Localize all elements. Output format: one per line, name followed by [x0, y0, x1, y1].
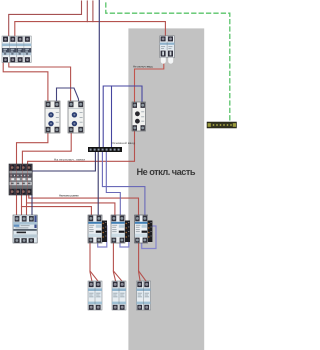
aux contact block of E	[148, 221, 153, 243]
wire contactor H out to switch QS (non-switched line)	[28, 131, 135, 165]
wire N busbar to contactor E	[102, 152, 144, 216]
breaker F3 (2-pole output)	[137, 281, 151, 310]
wire N busbar to switch QS	[33, 152, 96, 172]
wire N busbar to contactor D	[106, 152, 120, 216]
svg-text:На неоткл. розетки: На неоткл. розетки	[59, 194, 79, 198]
wire aux loop contactor E	[142, 226, 156, 249]
contactor E with aux block	[135, 215, 153, 243]
wire runs crossing switch QS face	[11, 164, 28, 195]
svg-text:На неотключ. линии: На неотключ. линии	[54, 158, 85, 162]
wire aux loop contactor C	[98, 226, 107, 247]
wire Q1 pole2 out to contactor A	[3, 61, 48, 102]
wire contactor D out to breaker F2	[113, 243, 115, 282]
wire switch QS out 1 to breaker I	[16, 195, 18, 216]
aux contact block of D	[125, 221, 130, 243]
contactor B	[68, 101, 84, 133]
contactor H	[132, 102, 146, 131]
wire Q1 pole1 out to contactor B	[9, 61, 71, 102]
aux contact block of C	[102, 221, 107, 243]
wire contactor E out diagonal to breaker F3 pole2	[139, 271, 147, 282]
svg-text:Основной ввод: Основной ввод	[112, 141, 136, 145]
wire contactor D out diagonal to breaker F2 pole2	[113, 271, 122, 282]
TEXT LABELS	[54, 64, 196, 197]
wire contactor E out to breaker F3	[139, 243, 141, 282]
N busbar (main input terminal strip)	[88, 147, 122, 152]
breaker F2 (2-pole output)	[112, 281, 126, 310]
wire N jumper contactor A to contactor B	[57, 88, 79, 102]
PE busbar (ground bar, right side)	[207, 122, 237, 128]
wire aux loop contactor D	[120, 226, 129, 247]
wire branch to contactor C	[22, 207, 92, 216]
wire riser to top edge at x93	[92, 1, 94, 22]
wire riser to top edge at x87	[86, 1, 88, 22]
svg-text:Не отключ. ввод: Не отключ. ввод	[133, 64, 153, 68]
wire contactor B out to switch QS	[22, 133, 71, 165]
wire switch QS out 2 to breaker I	[21, 195, 23, 216]
wire contactor C out diagonal to breaker F1 pole2	[90, 271, 98, 282]
switch QS (4-pole modular switch)	[9, 164, 32, 195]
breaker F1 (2-pole output)	[88, 281, 102, 310]
wire N busbar leg at x111	[111, 86, 113, 148]
contactor A	[45, 101, 60, 133]
contactor C with aux block	[88, 215, 107, 243]
wire N switch QS to breaker I	[31, 195, 33, 216]
wire N from contactor H to N busbar	[103, 86, 142, 148]
breaker G (2-pole, non-switched input)	[160, 36, 175, 64]
breaker I (3-pole output breaker, bottom-left)	[13, 215, 37, 243]
wire contactor C out to breaker F1	[90, 243, 92, 282]
wire N main riser to N busbar	[98, 0, 100, 148]
wire contactor A out to switch QS	[17, 133, 48, 165]
svg-text:Не откл. часть: Не откл. часть	[137, 167, 196, 177]
non-switched zone (gray panel)	[128, 28, 204, 350]
wire branch to contactor E	[29, 195, 139, 216]
wire L2 feed: top breaker Q1 pole2 long run to breaker G	[15, 22, 166, 37]
wire breaker G out to contactor H	[135, 58, 164, 103]
wire L1 feed: top breaker Q1 pole1 to top edge	[9, 1, 82, 37]
breaker Q1 (4-pole input breaker, top-left)	[2, 36, 31, 63]
wire branch to contactor D	[27, 203, 115, 216]
wire N busbar to contactor C	[97, 152, 99, 216]
contactor D with aux block	[111, 215, 130, 243]
wire switch QS out 3 to breaker I	[26, 195, 28, 216]
wire PE green dashed run	[106, 3, 230, 122]
